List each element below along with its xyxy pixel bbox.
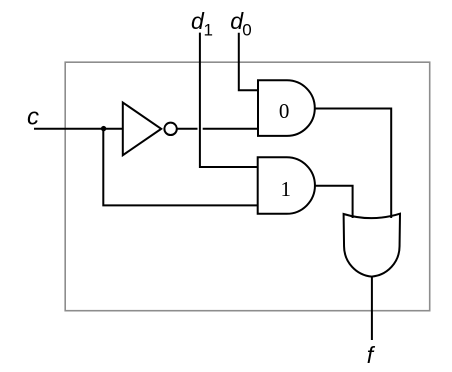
wire: inverter output to AND0 lower input (177, 128, 258, 130)
input label d0 (230, 8, 251, 39)
svg-text:1: 1 (281, 177, 292, 201)
mux block outline (65, 62, 430, 311)
wire: d1 down to AND1 upper input (200, 33, 258, 167)
inverter U1 (123, 103, 177, 156)
wire: AND1 output to OR left input (315, 186, 353, 218)
OR gate (344, 214, 400, 277)
wire: d0 down to AND0 upper input (239, 33, 258, 91)
junction on c wire (101, 126, 106, 131)
wire: AND0 output to OR right input (315, 109, 391, 219)
svg-text:c: c (27, 103, 39, 130)
svg-text:0: 0 (242, 21, 251, 40)
wire: c branch down to AND1 lower input (103, 129, 257, 206)
AND gate 1 (258, 157, 315, 214)
AND gate 0 (258, 80, 315, 136)
svg-text:0: 0 (279, 99, 290, 123)
svg-text:1: 1 (204, 21, 213, 40)
wire: OR output to f (371, 277, 373, 340)
input label d1 (191, 8, 213, 39)
wire: input c to inverter (34, 128, 123, 130)
